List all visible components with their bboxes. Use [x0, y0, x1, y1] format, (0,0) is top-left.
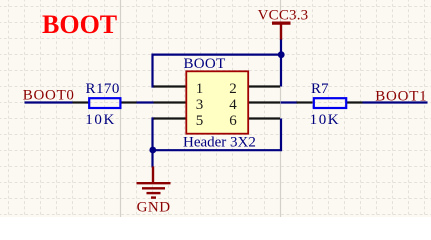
- wire net BOOT0: [25, 101, 73, 103]
- svg-text:R7: R7: [311, 81, 329, 97]
- svg-text:10K: 10K: [310, 112, 341, 128]
- wire VCC3.3 to pin 2: [280, 40, 282, 87]
- wire pin 4 to R7: [281, 101, 298, 103]
- resistor R7: [297, 81, 363, 128]
- svg-text:1: 1: [196, 81, 204, 97]
- svg-text:4: 4: [229, 97, 237, 113]
- power port VCC3.3: [258, 8, 309, 41]
- svg-text:BOOT: BOOT: [184, 56, 226, 72]
- junction VCC node: [278, 51, 285, 58]
- svg-text:5: 5: [196, 113, 204, 129]
- svg-text:10K: 10K: [85, 112, 116, 128]
- wire top loop pin1 to VCC node: [153, 55, 282, 87]
- ground GND: [137, 167, 171, 216]
- wire R170 to pin 3: [137, 101, 154, 103]
- svg-text:GND: GND: [137, 200, 171, 216]
- svg-text:R170: R170: [86, 81, 120, 97]
- wire bottom loop pin5/pin6 to GND node: [153, 119, 282, 151]
- svg-text:VCC3.3: VCC3.3: [258, 8, 309, 24]
- svg-text:Header 3X2: Header 3X2: [183, 135, 256, 151]
- wire net BOOT1: [363, 101, 428, 103]
- connector header BOOT Header 3X2: [154, 56, 281, 151]
- wire GND node down: [151, 150, 153, 167]
- svg-text:2: 2: [229, 81, 237, 97]
- svg-text:BOOT: BOOT: [42, 10, 117, 39]
- junction GND node: [149, 147, 156, 154]
- svg-text:BOOT1: BOOT1: [375, 89, 427, 105]
- svg-text:3: 3: [196, 97, 204, 113]
- resistor R1 R170: [73, 81, 137, 128]
- svg-text:BOOT0: BOOT0: [23, 88, 75, 104]
- svg-text:6: 6: [229, 113, 237, 129]
